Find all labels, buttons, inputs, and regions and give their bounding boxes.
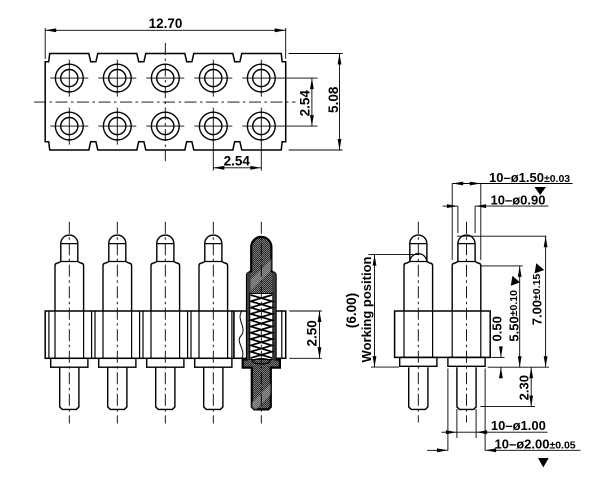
side view rear pin: flange xyxy=(448,357,485,366)
front view pin 5: spring xyxy=(251,295,272,358)
front view pin 1: plunger tip xyxy=(61,235,78,261)
svg-text:2.54: 2.54 xyxy=(224,153,251,168)
front view pin 3: flange xyxy=(147,358,184,367)
top view: horizontal centerline xyxy=(34,101,296,103)
side view front pin: barrel xyxy=(404,262,433,312)
side view rear pin centerline xyxy=(466,222,468,423)
dimension 10-diam1.00 tail xyxy=(441,409,547,438)
front view pin 3: barrel through housing xyxy=(151,311,180,358)
dimension 2.54 column pitch xyxy=(213,153,261,169)
front view pin 1: flange xyxy=(51,358,88,367)
side view front pin: compressed tip arc xyxy=(410,254,427,263)
top view: hole row2 col5 xyxy=(242,112,280,140)
front view pin 2: centerline xyxy=(116,222,118,424)
top view: hole row1 col2 xyxy=(98,60,136,97)
front view pin 4: solder tail xyxy=(204,367,223,409)
svg-text:2.54: 2.54 xyxy=(297,90,312,117)
svg-text:5.08: 5.08 xyxy=(326,86,341,113)
dimension 10-diam0.90 tip xyxy=(443,193,549,233)
svg-text:2.30: 2.30 xyxy=(517,375,532,400)
front view pin 4: barrel xyxy=(199,262,228,312)
front view pin 1: centerline xyxy=(68,222,70,424)
top view: hole row1 col3 xyxy=(146,64,184,92)
dimension 0.50 flange height xyxy=(490,316,505,378)
svg-text:10–ø1.00: 10–ø1.00 xyxy=(491,418,546,433)
front view pin 4: barrel through housing xyxy=(199,311,228,358)
front view pin 2: solder tail xyxy=(108,367,127,409)
side view: housing block xyxy=(395,311,491,357)
dimension 7.00 total height xyxy=(457,236,549,367)
front view pin 5: barrel walls (section) xyxy=(247,273,251,360)
svg-text:2.50: 2.50 xyxy=(305,320,320,346)
front view pin 1: solder tail xyxy=(60,367,79,409)
front view pin 3: plunger tip xyxy=(157,235,174,261)
side view rear pin: solder tail xyxy=(457,367,476,409)
front view pin 2: barrel through housing xyxy=(103,311,132,358)
front view pin 5: spring cavity xyxy=(250,294,273,360)
front view pin 1: barrel xyxy=(55,262,84,312)
side view rear pin: plunger tip xyxy=(458,235,475,261)
svg-text:0.50: 0.50 xyxy=(490,316,505,341)
dimension 2.50 housing height xyxy=(289,311,322,358)
dimension 12.70 overall width xyxy=(45,16,286,59)
front view pin 2: plunger tip xyxy=(109,235,126,261)
svg-text:7.00±0.15: 7.00±0.15 xyxy=(530,274,545,326)
top view: extended crosshair col4 row2 xyxy=(212,108,214,171)
top view: hole row2 col2 xyxy=(98,108,136,145)
top view: hole row1 col4 xyxy=(194,60,232,97)
dimension (6.00) working position xyxy=(344,255,419,368)
dimension 10-diam2.00 flange xyxy=(427,369,581,468)
side view front pin: plunger tip xyxy=(410,235,427,261)
svg-text:Working position: Working position xyxy=(359,256,374,362)
top view: vertical centerline middle column xyxy=(164,43,166,161)
front view pin 5: centerline xyxy=(260,222,262,424)
top view: extended crosshair col5 row2 xyxy=(260,108,262,171)
front view: housing band outline xyxy=(45,311,286,358)
side view front pin: flange xyxy=(400,357,437,366)
dimension 2.54 row pitch xyxy=(280,78,318,126)
top view: hole row2 col4 xyxy=(194,112,232,140)
side view rear pin: barrel through housing xyxy=(452,311,481,357)
side view rear pin: barrel xyxy=(452,262,481,312)
dimension 10-diam1.50 barrel xyxy=(452,170,572,260)
front view pin 4: flange xyxy=(195,358,232,367)
dimension 5.08 body height xyxy=(289,54,343,151)
front view pin 1: barrel through housing xyxy=(55,311,84,358)
front view pin 3: barrel xyxy=(151,262,180,312)
svg-text:10–ø2.00±0.05: 10–ø2.00±0.05 xyxy=(495,436,576,451)
front view pin 3: solder tail xyxy=(156,367,175,409)
side view front pin: solder tail xyxy=(409,367,428,409)
svg-text:5.50±0.10: 5.50±0.10 xyxy=(506,290,521,342)
dimension 5.50 above board xyxy=(481,266,523,367)
top view: hole row2 col1 xyxy=(50,108,88,145)
dimension 2.30 tail length xyxy=(480,367,535,406)
side view front pin: barrel through housing xyxy=(404,311,433,357)
front view pin 3: centerline xyxy=(164,222,166,424)
front view pin 4: centerline xyxy=(212,222,214,424)
front view: section break wavy line xyxy=(239,311,243,358)
side view front pin centerline xyxy=(417,222,419,423)
front view pin 2: barrel xyxy=(103,262,132,312)
front view pin 4: plunger tip xyxy=(205,235,222,261)
top view: hole row1 col5 xyxy=(242,60,280,97)
top view: connector body outline xyxy=(45,54,286,151)
top view: hole row1 col1 xyxy=(50,60,88,97)
svg-text:10–ø1.50±0.03: 10–ø1.50±0.03 xyxy=(489,170,570,185)
top view: hole row2 col3 xyxy=(146,112,184,140)
front view pin 5: spring end coil xyxy=(252,359,270,364)
front view: housing segment boundaries xyxy=(92,311,234,358)
front view pin 2: flange xyxy=(99,358,136,367)
svg-text:10–ø0.90: 10–ø0.90 xyxy=(491,193,546,208)
svg-text:12.70: 12.70 xyxy=(149,16,183,31)
svg-text:(6.00): (6.00) xyxy=(344,293,359,328)
